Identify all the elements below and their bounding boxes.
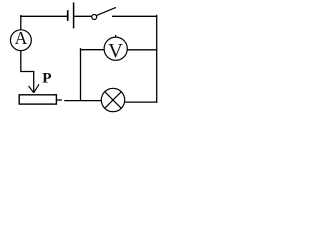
switch K open blade [97, 7, 116, 15]
svg-text:A: A [15, 28, 28, 48]
wire lamp right to bottom-right corner [125, 101, 158, 103]
wire top-left horizontal [21, 15, 67, 16]
svg-text:V: V [108, 40, 123, 62]
battery B1 short plate (negative) [67, 10, 69, 21]
wire battery to switch [74, 15, 91, 17]
ammeter A circle [11, 30, 32, 51]
switch K pivot circle [92, 15, 97, 20]
voltmeter V circle [104, 37, 127, 60]
wire voltmeter right lead [127, 49, 157, 51]
lamp L circle [101, 88, 124, 111]
rheostat wiper arrowhead [29, 84, 39, 93]
wire switch contact to top-right corner [112, 15, 157, 17]
svg-text:P: P [42, 69, 51, 86]
wire voltmeter branch vertical [80, 48, 82, 101]
wire stub right of rheostat [57, 99, 62, 101]
wire right vertical [156, 15, 158, 103]
rheostat wiper stem [33, 71, 35, 93]
wire left vertical into ammeter [20, 16, 22, 31]
wire bottom left segment to lamp [64, 100, 101, 102]
battery B1 long plate (positive) [73, 2, 75, 28]
wire voltmeter left lead [80, 49, 104, 51]
lamp X cross [105, 92, 121, 108]
wire ammeter down to corner and jog right [21, 50, 34, 71]
rheostat body rectangle [19, 95, 56, 104]
voltmeter top tick [115, 35, 117, 37]
